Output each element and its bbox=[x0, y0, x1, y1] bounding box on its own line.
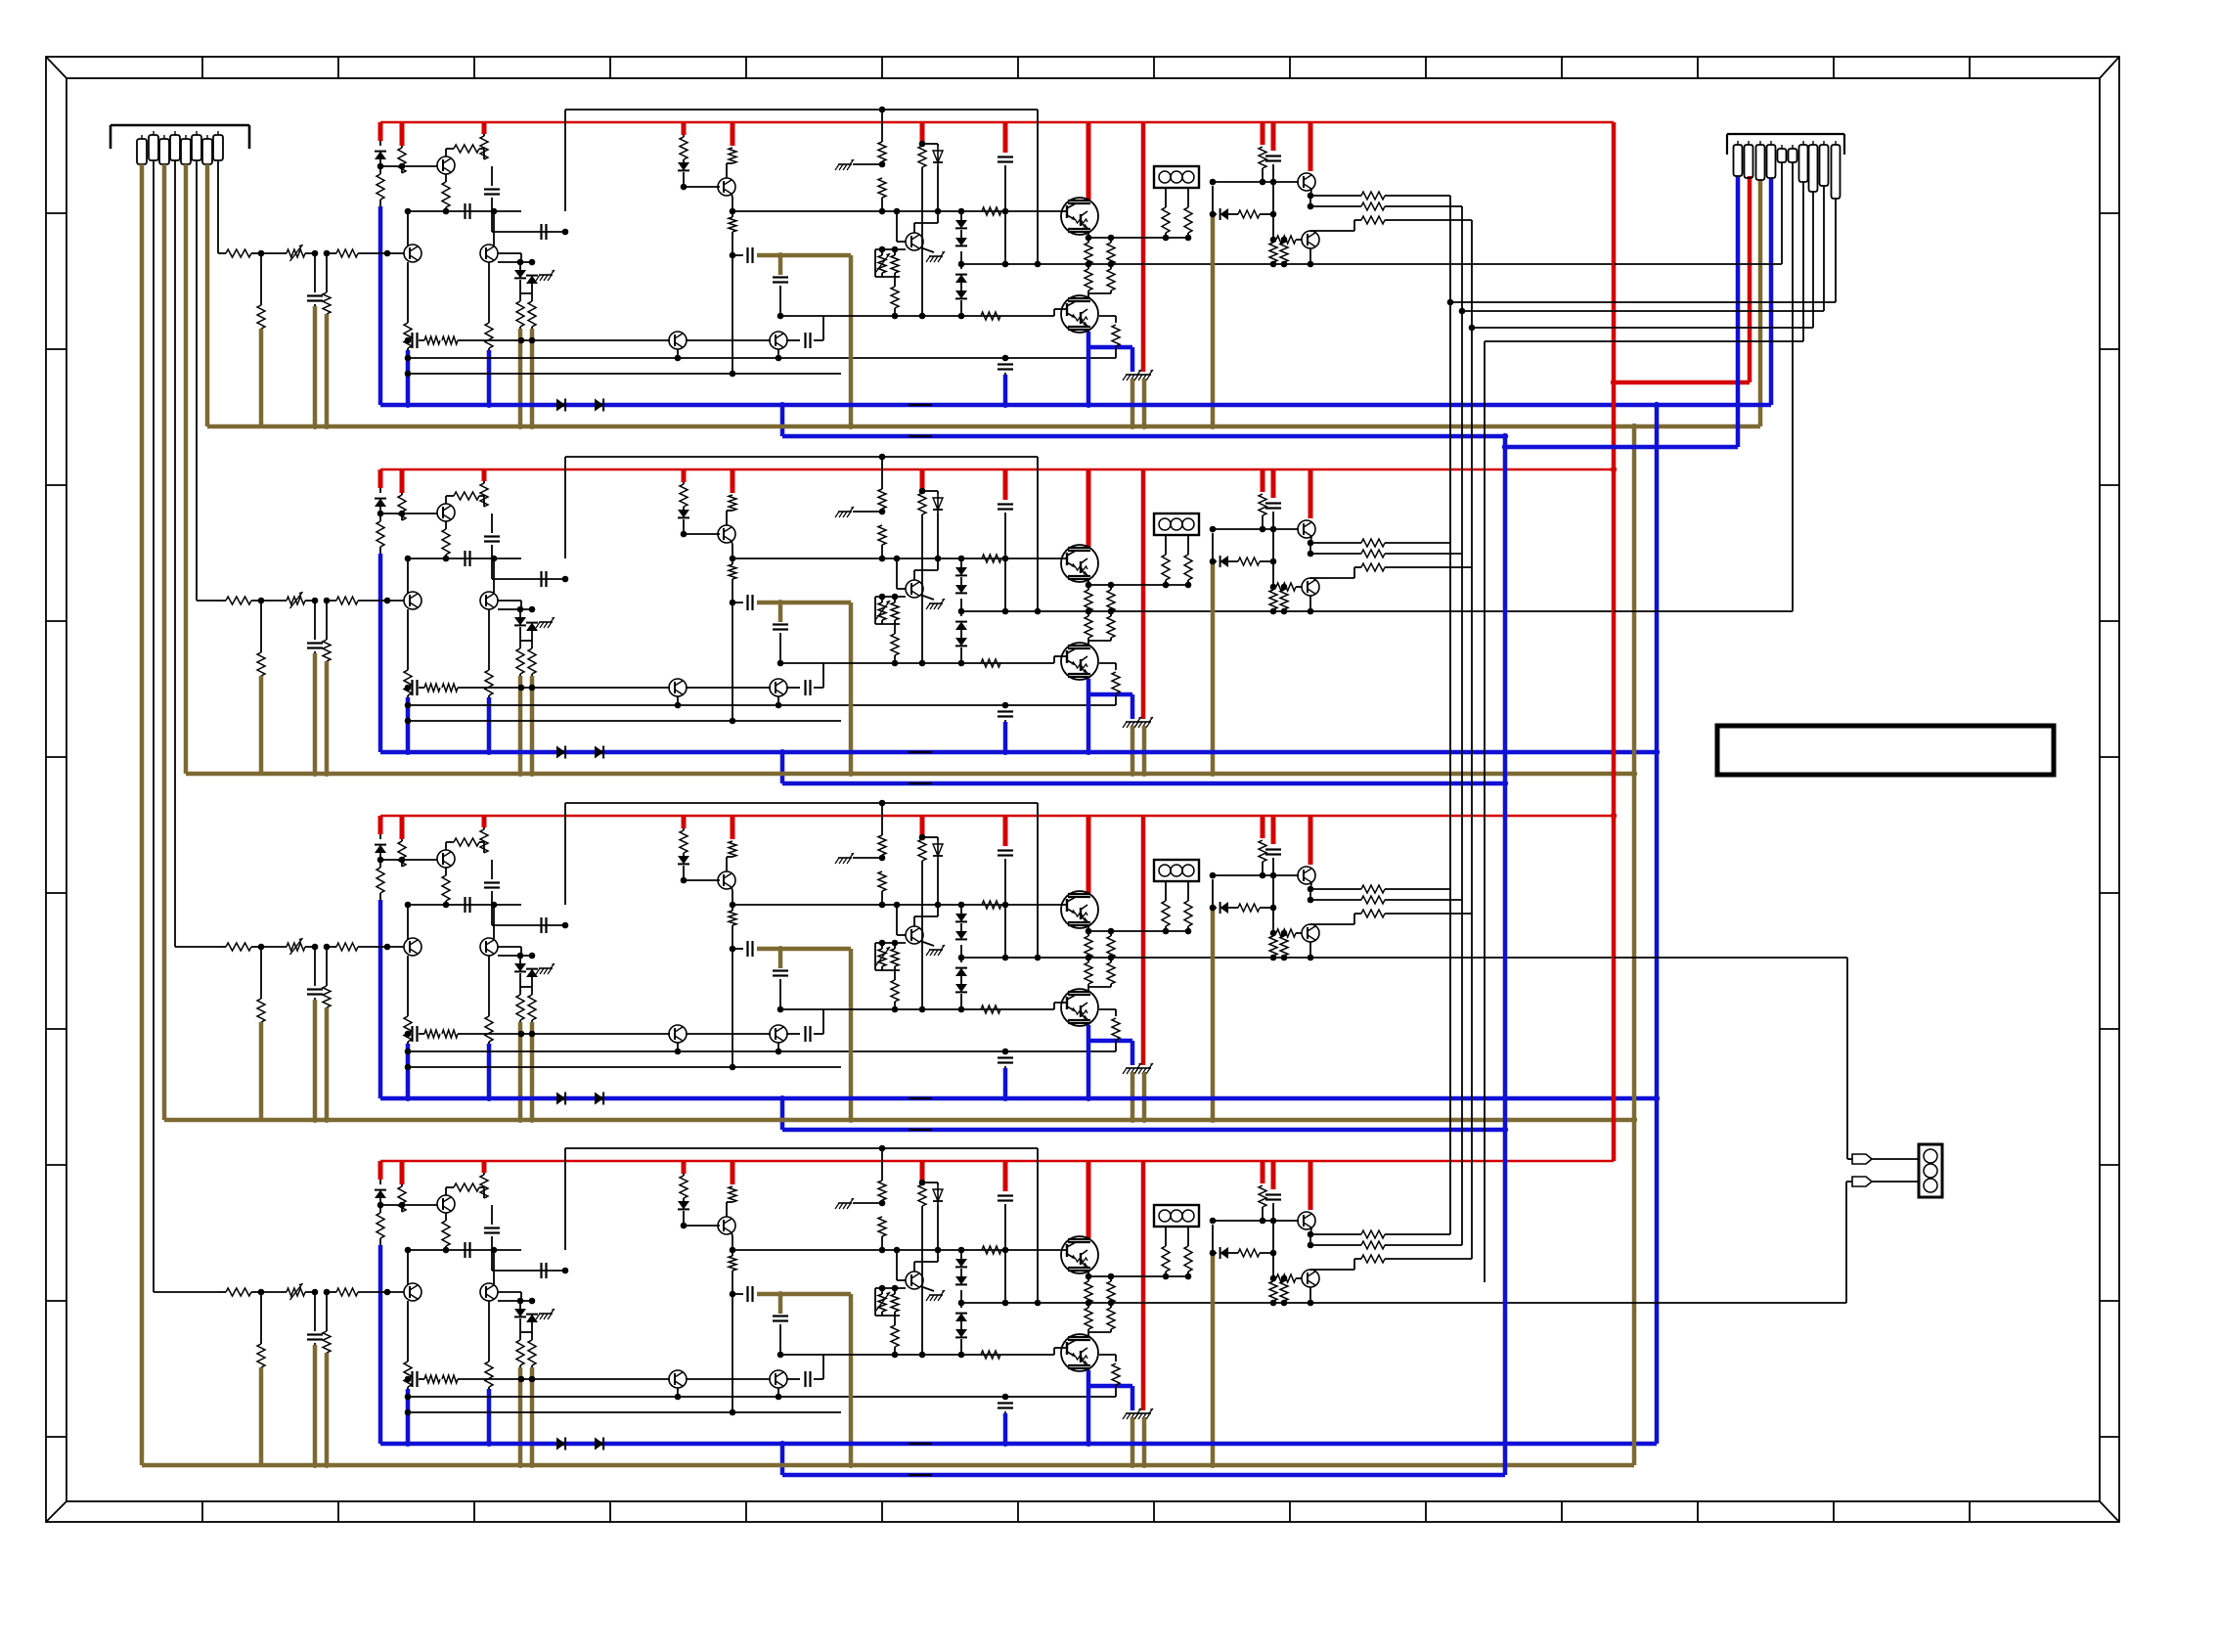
channel 2 block bbox=[218, 454, 1657, 783]
J1 pin x212 bbox=[202, 139, 212, 164]
J1 gnd wire 4 bbox=[205, 164, 210, 426]
J2 wire pin9 bbox=[1823, 186, 1825, 311]
gnd bus ext ch1 bbox=[1634, 424, 1760, 429]
gnd trunk junctions bbox=[1631, 424, 1637, 429]
J1 pin x201 bbox=[192, 135, 201, 160]
sense bus C bbox=[1471, 220, 1473, 1259]
sense link 3 bbox=[1472, 327, 1813, 329]
J2 pin x1788 bbox=[1745, 145, 1753, 178]
speaker line ch3 bbox=[1614, 957, 1847, 959]
V- sub branch bbox=[1505, 445, 1738, 450]
J1 gnd wire 2 bbox=[162, 164, 167, 1120]
J2 pin x1811 bbox=[1767, 145, 1776, 178]
J2 wire pin5 bbox=[1781, 162, 1783, 264]
J2 pin x1833 bbox=[1789, 149, 1797, 162]
J1 pin x168 bbox=[159, 139, 169, 164]
V- sub trunk bbox=[1503, 436, 1508, 1475]
J2 pin x1822 bbox=[1778, 149, 1787, 162]
speaker line ch4 bbox=[1614, 1302, 1846, 1304]
V- trunk junctions bbox=[1654, 402, 1660, 408]
gnd trunk bbox=[1632, 426, 1637, 1465]
V+ trunk bbox=[1612, 122, 1617, 1161]
border left ticks bbox=[46, 212, 67, 214]
speaker jack box bbox=[1919, 1144, 1942, 1197]
J1 pin x157 bbox=[149, 135, 158, 160]
J1 gnd wire 1 bbox=[140, 164, 145, 1465]
connector J1 bracket bbox=[111, 124, 249, 127]
V+ feed branch bbox=[1614, 380, 1750, 385]
channel 3 block bbox=[218, 800, 1657, 1130]
connector J2 bracket bbox=[1727, 133, 1844, 135]
sense link 4 bbox=[1485, 340, 1803, 342]
J2 pin x1800 bbox=[1756, 145, 1765, 180]
J1 signal wire 3 bbox=[196, 160, 198, 601]
sense link 1 bbox=[1450, 301, 1836, 303]
lug P2 bbox=[1846, 1181, 1852, 1183]
J1 signal wire 1 bbox=[153, 160, 155, 1292]
border right ticks bbox=[2100, 212, 2119, 214]
V- trunk bbox=[1655, 404, 1660, 1444]
J2 wire pin8 bbox=[1812, 192, 1814, 328]
J1 signal wire 4 bbox=[217, 160, 219, 253]
sheet inner border bbox=[67, 78, 2100, 1501]
sense link 2 bbox=[1462, 310, 1824, 312]
lug P1 bbox=[1847, 1158, 1852, 1160]
sense bus B bbox=[1461, 206, 1463, 1245]
J2 wire pin10 bbox=[1835, 199, 1837, 302]
J2 pin x1777 bbox=[1734, 145, 1743, 176]
J1 gnd wire 3 bbox=[184, 164, 189, 774]
V- rail ext ch1 bbox=[1657, 403, 1771, 408]
sense bus A bbox=[1449, 196, 1451, 1234]
V+ trunk junctions bbox=[1611, 467, 1617, 472]
J1 pin x145 bbox=[137, 139, 147, 164]
J2 pin x1865 bbox=[1820, 145, 1829, 186]
J1 signal wire 2 bbox=[174, 160, 176, 947]
sense bus D bbox=[1484, 341, 1486, 1282]
J1 pin x179 bbox=[170, 135, 180, 160]
title box bbox=[1717, 726, 2054, 775]
J1 pin x223 bbox=[213, 135, 223, 160]
V- sub junctions bbox=[1502, 433, 1508, 439]
border top ticks bbox=[201, 57, 203, 78]
J1 pin x190 bbox=[181, 139, 191, 164]
J2 wire pin7 bbox=[1802, 182, 1804, 341]
border corner diagonals bbox=[46, 57, 67, 78]
border bottom ticks bbox=[201, 1501, 203, 1522]
J2 pin x1854 bbox=[1809, 145, 1818, 192]
J2 wire pin6 bbox=[1792, 162, 1794, 611]
J2 pin x1877 bbox=[1832, 145, 1841, 199]
channel 4 block bbox=[218, 1145, 1657, 1475]
J2 pin x1844 bbox=[1799, 145, 1808, 182]
channel 1 block bbox=[218, 107, 1657, 436]
